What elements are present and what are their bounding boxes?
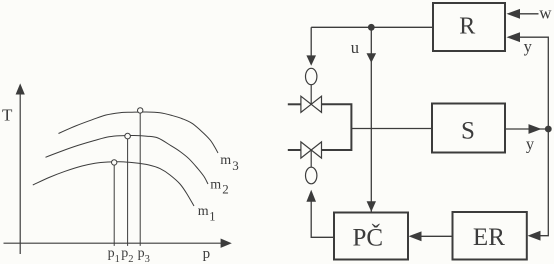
svg-text:S: S [461,117,475,144]
manifold bracket (valves to S line) [322,104,352,150]
marker circle on m3 at p3 [138,108,143,113]
arrowhead w into R [507,9,521,19]
wire w input [520,13,539,15]
svg-text:p: p [203,246,211,262]
p2 vertical line [127,136,129,246]
p1 vertical line [113,162,115,246]
marker circle on m1 at p1 [112,160,117,165]
arrowhead u into PC top [367,201,376,212]
arrowhead y into R [507,32,521,42]
p3 vertical line [139,110,141,246]
arrowhead S output [529,124,542,134]
T axis arrowhead [16,83,25,94]
actuator ellipse bottom [306,167,317,184]
junction dot u node [368,24,375,31]
arrowhead up onto bottom actuator [306,190,316,202]
junction dot y node [545,126,552,133]
wire u vertical down to PC [370,27,372,211]
actuator ellipse top [306,68,317,84]
block PC (PČ) [334,213,408,260]
arrowhead u mid-line [367,53,377,63]
valve V2 (bottom) bowtie [301,142,311,158]
wire manifold to S [351,128,432,130]
block S [432,104,505,153]
wire PC output to bottom valve [311,201,334,237]
curve m2 [46,135,209,184]
wire y into R (from feedback line) [520,37,548,129]
svg-text:ER: ER [473,224,505,251]
p axis arrowhead [221,239,232,248]
wire R output (to left) [311,26,433,28]
T axis (vertical) [19,91,21,254]
arrowhead onto top actuator [306,55,316,65]
marker circle on m2 at p2 [125,133,131,139]
wire left branch down to top valve actuator [310,27,312,56]
stem top valve [310,85,312,105]
svg-text:T: T [2,106,13,125]
wire feedback down into ER [540,129,548,236]
wire S output [505,128,548,130]
curve m3 [59,112,219,153]
valve V1 (top) bowtie [301,96,311,112]
arrowhead into PC right edge [409,231,422,241]
svg-text:u: u [351,38,359,57]
svg-text:y: y [526,135,535,154]
block R [433,3,505,51]
p axis (horizontal) [4,242,224,244]
wire ER to PC [421,235,453,237]
curve m1 [33,162,194,206]
top valve left stub [288,103,302,105]
svg-text:w: w [539,3,552,22]
arrowhead into ER [528,231,541,241]
stem bottom valve [310,150,312,167]
svg-text:y: y [524,37,533,56]
bottom valve left stub [288,149,302,151]
svg-text:PČ: PČ [353,224,384,252]
block ER [453,212,527,260]
svg-text:R: R [459,14,475,40]
